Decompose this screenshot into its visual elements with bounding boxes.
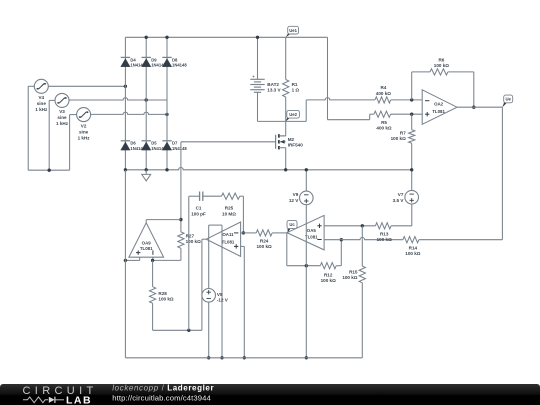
wire OA5 - input lead (hop over R15 line) xyxy=(324,237,403,239)
voltage source V8 -12 V xyxy=(202,289,216,303)
wire sources common bottom xyxy=(28,169,69,171)
svg-text:IRF540: IRF540 xyxy=(288,143,304,148)
wire V2 left vertical xyxy=(69,115,71,171)
svg-text:Uc: Uc xyxy=(289,222,295,227)
footer author/title xyxy=(112,384,214,393)
label M2 xyxy=(288,137,304,148)
junction OA5 - input / R12 xyxy=(340,238,343,241)
op-amp OA2 TL081 xyxy=(422,90,457,125)
wire V4 to column 1 xyxy=(48,85,125,87)
wire OA11 - input lead xyxy=(241,232,257,234)
svg-text:100 kΩ: 100 kΩ xyxy=(377,237,392,242)
resistor R7 100 kOhm xyxy=(409,130,415,144)
label V9 xyxy=(289,192,299,203)
wire V3 to column 3 (hop over column 1) xyxy=(69,98,167,100)
op-amp OA5 TL081 xyxy=(287,215,324,250)
voltage source V2 (sine 1 kHz) xyxy=(77,108,91,122)
wire R4 wire (hop over Ue1 branch) xyxy=(306,98,375,100)
wire V4 left vertical xyxy=(27,86,29,170)
wire Ue2 horizontal xyxy=(258,120,307,122)
node Ue1 xyxy=(286,26,299,37)
label V3 xyxy=(56,109,69,126)
svg-text:R24: R24 xyxy=(260,238,269,243)
svg-text:-12 V: -12 V xyxy=(217,298,229,303)
wire diode column 2 xyxy=(145,37,147,170)
junction mid rail / column 3 xyxy=(165,168,168,171)
svg-text:http://circuitlab.com/c4t3944: http://circuitlab.com/c4t3944 xyxy=(112,393,211,402)
resistor R14 100 kOhm xyxy=(403,237,419,243)
diode D4 1N4148 xyxy=(121,57,130,66)
op-amp OA9 TL081 xyxy=(129,223,164,257)
svg-text:sine: sine xyxy=(37,101,47,106)
wire R4 left vertical xyxy=(305,100,307,122)
resistor R12 100 kOhm xyxy=(320,263,336,269)
transistor M2 IRF540 xyxy=(276,134,286,149)
capacitor C1 100 pF xyxy=(200,192,203,201)
svg-text:3.5 V: 3.5 V xyxy=(393,198,405,203)
svg-text:100 kΩ: 100 kΩ xyxy=(257,244,272,249)
wire R14 right lead xyxy=(419,239,503,241)
wire OA9 output xyxy=(146,220,181,223)
voltage source V7 3.5 V xyxy=(405,190,419,204)
label R25 xyxy=(222,206,236,217)
resistor R27 100 kOhm xyxy=(178,232,184,248)
wire R15 top lead xyxy=(361,226,363,266)
wire R13 right lead xyxy=(391,204,412,226)
label C1 xyxy=(191,206,206,217)
wire M2 gate xyxy=(181,141,276,143)
svg-text:V8: V8 xyxy=(217,292,223,297)
wire R27 bottom lead xyxy=(153,248,181,260)
svg-text:R5: R5 xyxy=(381,120,387,125)
junction V4 / column 1 xyxy=(124,85,127,88)
svg-text:Ue1: Ue1 xyxy=(289,28,297,33)
diode D5 1N4148 xyxy=(142,141,151,150)
svg-text:1N4148: 1N4148 xyxy=(172,146,187,151)
svg-text:100 pF: 100 pF xyxy=(191,211,206,216)
wire V2 to column 3 (hops over columns 1,2) xyxy=(91,112,167,114)
svg-text:LAB: LAB xyxy=(66,394,92,405)
svg-text:1 kHz: 1 kHz xyxy=(78,135,91,140)
junction bottom rail / V8 xyxy=(207,356,210,359)
resistor R25 10 MOhm xyxy=(222,193,240,199)
wire Ue1 branch to R5 xyxy=(328,114,374,120)
svg-text:OA11: OA11 xyxy=(222,232,234,237)
wire R6 right lead xyxy=(448,72,474,107)
junction top rail / column 2 xyxy=(145,36,148,39)
junction top rail / column 3 xyxy=(165,36,168,39)
svg-text:V7: V7 xyxy=(398,192,404,197)
junction V2 / column 3 xyxy=(165,113,168,116)
resistor R28 100 kOhm xyxy=(150,287,156,304)
wire R7 top lead xyxy=(411,114,413,130)
junction mid rail / M2 source xyxy=(284,168,287,171)
svg-text:R14: R14 xyxy=(409,245,418,250)
wire R1 top lead xyxy=(285,37,287,79)
wire V8 bottom lead xyxy=(208,302,210,358)
junction mid rail / R7-V7 xyxy=(410,168,413,171)
svg-text:R12: R12 xyxy=(324,272,333,277)
node Ue xyxy=(502,95,512,107)
svg-text:100 kΩ: 100 kΩ xyxy=(405,251,420,256)
label D8 xyxy=(172,57,187,67)
junction sources common / V3 xyxy=(48,169,51,172)
node Uc xyxy=(287,220,297,232)
voltage source V4 (sine 1 kHz) xyxy=(34,79,48,93)
label R1 xyxy=(292,82,300,92)
wire OA5 + input lead xyxy=(324,225,375,227)
label R7 xyxy=(391,130,407,141)
junction mid rail / V9 xyxy=(305,168,308,171)
label R27 xyxy=(186,233,201,244)
svg-text:OA2: OA2 xyxy=(434,102,444,107)
label R6 xyxy=(434,57,449,68)
wire diode column 3 xyxy=(166,37,168,170)
wire OA11 output xyxy=(202,239,206,330)
wire R12 right lead xyxy=(336,240,341,266)
wire M2 source xyxy=(285,148,287,170)
svg-text:100 kΩ: 100 kΩ xyxy=(434,63,449,68)
wire mid rail (ground net, hop over gate line) xyxy=(125,168,411,170)
wire V3 left lead xyxy=(49,99,55,101)
diode D6 1N4148 xyxy=(121,141,130,150)
junction V3 / column 2 xyxy=(145,98,148,101)
diode D8 1N4148 xyxy=(162,57,171,66)
svg-text:13.3 V: 13.3 V xyxy=(267,87,281,92)
CircuitLab logo xyxy=(23,385,98,405)
label R15 xyxy=(342,270,358,281)
svg-text:TL081: TL081 xyxy=(140,246,153,251)
label D7 xyxy=(172,141,187,151)
svg-text:R27: R27 xyxy=(186,233,195,238)
svg-text:R4: R4 xyxy=(380,85,386,90)
label R14 xyxy=(405,245,420,256)
ground xyxy=(142,170,151,181)
wire OA11 power pins xyxy=(209,225,222,358)
wire Ue1 branch vertical xyxy=(327,37,329,119)
label V7 xyxy=(393,192,405,203)
svg-text:100 kΩ: 100 kΩ xyxy=(342,275,357,280)
svg-text:lockencopp / Laderegler: lockencopp / Laderegler xyxy=(112,384,214,393)
wire OA9 + input xyxy=(125,257,139,260)
svg-text:100 kΩ: 100 kΩ xyxy=(186,239,201,244)
wire R4 right lead xyxy=(391,99,423,101)
svg-text:10 MΩ: 10 MΩ xyxy=(222,211,236,216)
wire R28 top lead xyxy=(152,260,154,286)
svg-text:R25: R25 xyxy=(225,206,234,211)
label R4 xyxy=(376,85,391,96)
junction mid rail / column 1 xyxy=(124,168,127,171)
junction bottom rail / OA11 V- xyxy=(220,356,223,359)
junction R5 / R7 xyxy=(410,113,413,116)
resistor R24 100 kOhm xyxy=(256,230,272,236)
junction OA9 - / R27 / R28 xyxy=(151,259,154,262)
wire OA2 output xyxy=(457,106,502,108)
svg-text:R6: R6 xyxy=(438,57,444,62)
svg-text:V4: V4 xyxy=(38,95,44,100)
junction R28 wire / feedback line xyxy=(187,329,190,332)
svg-text:TL081: TL081 xyxy=(222,240,235,245)
wire V4 left lead xyxy=(28,85,34,87)
label V2 xyxy=(78,123,91,140)
wire R15 bottom lead xyxy=(361,283,363,358)
svg-text:R15: R15 xyxy=(349,270,358,275)
footer bar xyxy=(0,384,540,405)
svg-text:Ue2: Ue2 xyxy=(289,112,297,117)
svg-text:R28: R28 xyxy=(158,291,167,296)
junction R6 / OA2 output xyxy=(472,106,475,109)
resistor R13 100 kOhm xyxy=(375,223,391,229)
svg-text:V3: V3 xyxy=(59,109,65,114)
wire OA5 power line xyxy=(305,205,307,358)
wire OA5 output down xyxy=(287,233,321,266)
label R5 xyxy=(376,120,391,131)
wire R24 right lead xyxy=(272,232,287,234)
wire C1 left lead xyxy=(189,195,200,197)
label D9 xyxy=(151,57,166,67)
junction OA5 + / R15 xyxy=(361,224,364,227)
junction mid rail / column 2 xyxy=(145,168,148,171)
resistor R6 100 kOhm xyxy=(430,69,448,75)
label R28 xyxy=(158,291,173,302)
diode D9 1N4148 xyxy=(142,57,151,66)
wire battery top lead xyxy=(257,37,259,79)
label R24 xyxy=(257,238,272,249)
label V8 xyxy=(217,292,229,303)
wire V7 bottom lead xyxy=(411,203,413,205)
svg-text:1 kHz: 1 kHz xyxy=(35,107,48,112)
label BAT2 xyxy=(267,82,281,92)
battery BAT2 13.3 V xyxy=(250,74,264,92)
label D5 xyxy=(151,141,166,151)
junction gate line / OA9 output xyxy=(179,218,182,221)
wire V3 left vertical xyxy=(48,100,50,170)
svg-text:TL081: TL081 xyxy=(432,109,445,114)
junction top rail / battery xyxy=(256,36,259,39)
label V4 xyxy=(35,95,48,112)
label R13 xyxy=(377,231,392,242)
resistor R5 400 kOhm xyxy=(374,111,391,117)
wire bottom rail xyxy=(125,357,362,359)
svg-text:12 V: 12 V xyxy=(289,198,299,203)
svg-text:TL081: TL081 xyxy=(305,234,318,239)
svg-text:V9: V9 xyxy=(293,192,299,197)
junction feedback / OA11 - input xyxy=(242,231,245,234)
resistor R4 400 kOhm xyxy=(375,97,391,103)
svg-text:Ue: Ue xyxy=(506,97,512,102)
junction R4 / R6 feedback xyxy=(410,98,413,101)
wire R5 right lead xyxy=(391,113,423,115)
svg-text:OA9: OA9 xyxy=(142,241,152,246)
svg-text:sine: sine xyxy=(79,129,89,134)
svg-text:100 kΩ: 100 kΩ xyxy=(158,297,173,302)
wire V9 top lead xyxy=(305,170,307,191)
wire diode column 1 xyxy=(124,37,126,170)
node Ue2 xyxy=(286,110,300,121)
wire left vertical to bottom rail xyxy=(124,170,126,358)
svg-text:1 Ω: 1 Ω xyxy=(292,87,300,92)
wire R25 right lead xyxy=(240,196,244,233)
junction R12 wire / OA5 V- line xyxy=(305,264,308,267)
wire R28 bottom lead xyxy=(153,303,202,330)
wire M2 drain xyxy=(280,121,286,135)
svg-text:C1: C1 xyxy=(196,206,202,211)
junction OA9 + input / left vertical xyxy=(124,259,127,262)
svg-text:400 kΩ: 400 kΩ xyxy=(376,91,391,96)
svg-text:R13: R13 xyxy=(380,231,389,236)
wire R1 bottom lead xyxy=(285,97,287,121)
svg-text:V2: V2 xyxy=(81,123,87,128)
label D6 xyxy=(130,141,145,151)
svg-text:100 kΩ: 100 kΩ xyxy=(391,136,406,141)
resistor R1 1 Ohm xyxy=(283,80,289,98)
svg-text:sine: sine xyxy=(57,115,67,120)
wire Ue vertical to R14 xyxy=(501,107,503,240)
wire OA9 - input xyxy=(152,257,154,260)
junction bottom rail / OA5 power line xyxy=(305,356,308,359)
op-amp OA11 TL081 xyxy=(206,222,240,256)
wire R6 feedback xyxy=(412,72,430,100)
junction bottom rail / OA11 + input xyxy=(243,356,246,359)
wire gate line vertical xyxy=(180,142,182,232)
voltage source V9 12 V xyxy=(300,191,314,205)
wire battery bottom lead xyxy=(257,92,259,121)
diode D7 1N4148 xyxy=(162,141,171,150)
svg-text:1N4148: 1N4148 xyxy=(172,63,187,68)
wire C1 to R25 xyxy=(203,195,222,197)
label D4 xyxy=(130,57,145,67)
svg-text:400 kΩ: 400 kΩ xyxy=(376,126,391,131)
svg-text:M2: M2 xyxy=(288,137,295,142)
label R12 xyxy=(321,272,336,283)
svg-text:OA5: OA5 xyxy=(307,228,317,233)
footer url xyxy=(112,393,211,402)
wire R7 bottom lead xyxy=(411,143,413,190)
svg-text:100 kΩ: 100 kΩ xyxy=(321,278,336,283)
wire top rail (node Ue1) xyxy=(125,36,327,38)
wire OA11 + input lead xyxy=(241,246,245,357)
voltage source V3 (sine 1 kHz) xyxy=(55,93,69,107)
wire V2 left lead xyxy=(70,114,77,116)
svg-text:1 kHz: 1 kHz xyxy=(56,121,69,126)
svg-text:R7: R7 xyxy=(400,130,406,135)
resistor R15 100 kOhm xyxy=(359,266,365,283)
wire feedback left vertical xyxy=(188,196,190,330)
